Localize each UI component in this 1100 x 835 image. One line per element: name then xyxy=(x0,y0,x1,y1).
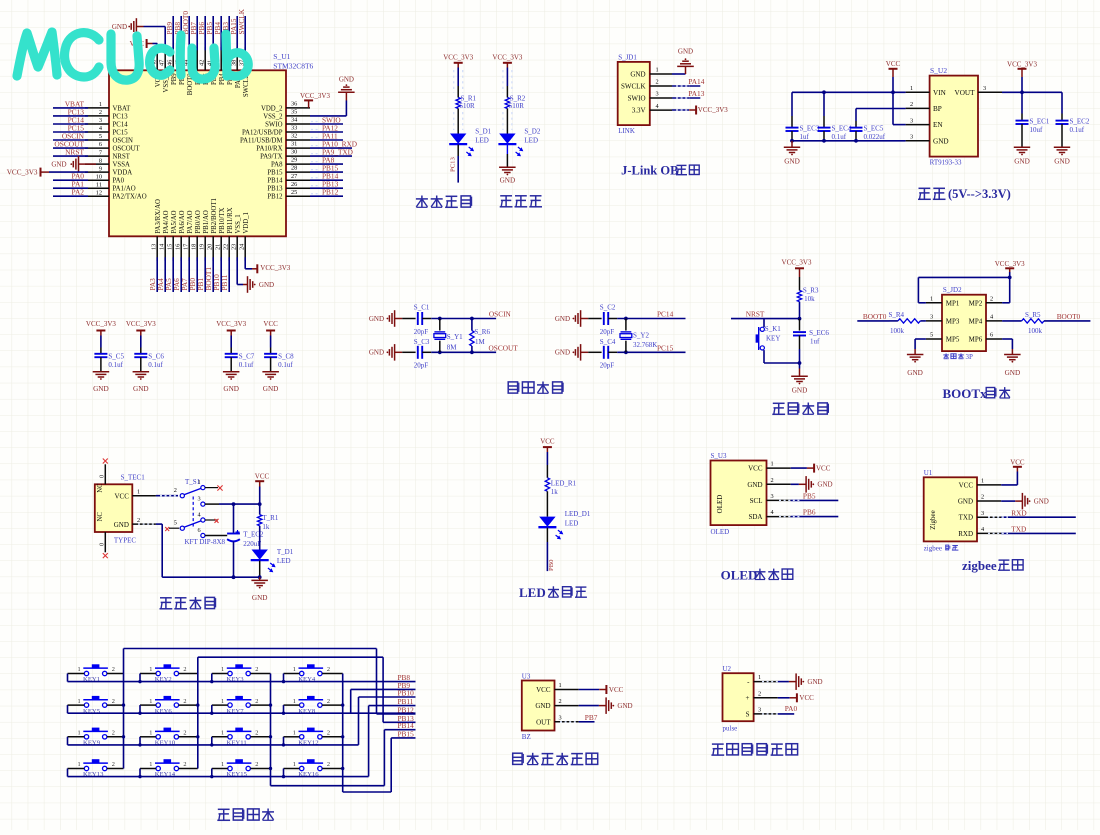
svg-text:32: 32 xyxy=(291,133,297,140)
svg-text:GND: GND xyxy=(1005,369,1021,377)
svg-text:1: 1 xyxy=(221,666,224,673)
svg-text:GND: GND xyxy=(500,176,516,184)
capacitor S_EC1 10uf xyxy=(1014,92,1050,165)
svg-text:PA0: PA0 xyxy=(785,704,798,713)
svg-text:1: 1 xyxy=(771,461,774,468)
gnd sideways xyxy=(369,344,416,361)
svg-text:33: 33 xyxy=(291,125,297,132)
svg-text:OSCOUT: OSCOUT xyxy=(113,146,141,153)
svg-text:LINK: LINK xyxy=(618,127,635,135)
svg-text:VSSA: VSSA xyxy=(113,162,130,169)
svg-text:LED: LED xyxy=(519,585,546,600)
pulse pin 3 S xyxy=(746,707,778,719)
svg-text:VIN: VIN xyxy=(933,89,947,97)
svg-text:OSCIN: OSCIN xyxy=(113,137,133,144)
svg-text:PA2: PA2 xyxy=(72,188,85,197)
svg-text:OLED: OLED xyxy=(716,495,724,514)
JD1 pin4 VCC_3V3 xyxy=(672,106,728,115)
svg-text:BOOT0: BOOT0 xyxy=(1057,312,1081,321)
U2 VOUT pin xyxy=(955,85,1002,97)
svg-text:S_EC6: S_EC6 xyxy=(809,329,829,337)
svg-text:3: 3 xyxy=(656,91,659,98)
svg-text:0.1uf: 0.1uf xyxy=(108,361,123,369)
svg-text:29: 29 xyxy=(291,157,297,164)
svg-text:1: 1 xyxy=(930,295,933,302)
svg-text:47: 47 xyxy=(159,60,166,66)
T_D1 gnd xyxy=(251,561,268,602)
title BOOTx xyxy=(943,386,1011,401)
JD1 pin 1 GND xyxy=(630,67,672,79)
svg-text:VSS_1: VSS_1 xyxy=(235,214,242,233)
svg-text:PB11: PB11 xyxy=(220,274,229,290)
key KEY11 xyxy=(210,728,270,747)
svg-text:S_R4: S_R4 xyxy=(889,311,905,319)
svg-text:7: 7 xyxy=(99,149,102,156)
svg-text:PC14: PC14 xyxy=(657,310,674,319)
wire column rail 4 and route to PB15 xyxy=(341,674,416,793)
wire EN to VIN xyxy=(893,92,906,124)
U1 top pin 42 PB6 xyxy=(197,16,210,85)
key KEY12 xyxy=(282,728,343,747)
svg-text:31: 31 xyxy=(291,141,297,148)
capacitor S_C6 0.1uf xyxy=(126,320,165,393)
svg-text:510R: 510R xyxy=(509,102,525,110)
U1 top pin 37 SWCLK xyxy=(237,8,250,97)
VCC rail top xyxy=(255,473,270,515)
svg-text:RT9193-33: RT9193-33 xyxy=(930,158,962,166)
zigbee pin2 gnd xyxy=(1001,493,1049,510)
svg-text:GND: GND xyxy=(1054,157,1070,165)
svg-text:2: 2 xyxy=(183,666,186,673)
wire NRST node xyxy=(731,302,801,321)
svg-text:GND: GND xyxy=(933,137,949,145)
svg-text:2: 2 xyxy=(183,698,186,705)
title OLED display xyxy=(721,567,793,582)
wire net PB0 xyxy=(547,528,555,571)
svg-text:PB15: PB15 xyxy=(398,729,415,738)
svg-text:PA11/USB/DM: PA11/USB/DM xyxy=(240,137,283,144)
svg-text:GND: GND xyxy=(617,702,632,710)
JD1 pin3 net PA13 xyxy=(672,89,705,98)
U1 top pin 47 VSS_3 xyxy=(159,47,170,93)
svg-text:11: 11 xyxy=(96,181,102,188)
svg-text:VCC: VCC xyxy=(816,464,831,472)
svg-text:20pF: 20pF xyxy=(414,361,429,369)
svg-text:S: S xyxy=(746,710,750,718)
svg-text:26: 26 xyxy=(291,181,297,188)
svg-text:1: 1 xyxy=(198,479,201,486)
svg-text:GND: GND xyxy=(792,386,808,394)
key KEY9 xyxy=(68,728,124,747)
svg-text:PA10/RX: PA10/RX xyxy=(256,146,282,153)
regulator S_U2 body xyxy=(930,66,978,167)
wire xyxy=(506,109,508,134)
IR pin 1 VCC xyxy=(536,682,579,694)
svg-text:S_EC4: S_EC4 xyxy=(832,125,852,133)
U1 pin8 GND symbol xyxy=(51,156,96,173)
svg-text:PA5/AO: PA5/AO xyxy=(171,210,178,233)
svg-text:1: 1 xyxy=(221,698,224,705)
svg-text:J-Link OB: J-Link OB xyxy=(621,164,678,178)
zigbee pin 2 GND xyxy=(958,494,1001,506)
svg-text:NRST: NRST xyxy=(65,148,84,157)
capacitor S_EC3 1uf xyxy=(786,92,820,141)
svg-text:3: 3 xyxy=(981,510,984,517)
title crystal circuit xyxy=(508,382,563,394)
svg-text:VCC_3V3: VCC_3V3 xyxy=(492,53,522,61)
resistor S_R1 510R xyxy=(456,94,477,110)
svg-text:2: 2 xyxy=(112,730,115,737)
capacitor S_C3 20pF xyxy=(414,338,430,370)
svg-text:3: 3 xyxy=(930,314,933,321)
svg-text:VBAT: VBAT xyxy=(113,105,132,112)
svg-text:46: 46 xyxy=(167,60,174,66)
gnd sideways xyxy=(555,344,602,361)
svg-text:2: 2 xyxy=(990,295,993,302)
svg-text:KFT DIP-8X8: KFT DIP-8X8 xyxy=(185,538,226,546)
svg-text:3: 3 xyxy=(198,496,201,503)
svg-text:1: 1 xyxy=(293,730,296,737)
module S_U3 body xyxy=(711,452,767,536)
svg-text:10: 10 xyxy=(96,173,102,180)
svg-text:NC: NC xyxy=(97,483,104,493)
U3 pin4 net PB6 xyxy=(791,508,839,517)
svg-text:13: 13 xyxy=(151,244,158,250)
svg-text:5: 5 xyxy=(174,520,177,527)
JD2 row 1 pins xyxy=(926,295,1002,307)
svg-text:GND: GND xyxy=(784,157,800,165)
svg-text:BOOTx: BOOTx xyxy=(943,386,988,401)
svg-text:PC14: PC14 xyxy=(113,121,129,128)
svg-text:GND: GND xyxy=(1034,497,1049,505)
svg-text:2: 2 xyxy=(99,109,102,116)
svg-text:100k: 100k xyxy=(890,327,905,335)
wire row bus 2 xyxy=(68,705,416,713)
wire net PB9 stair xyxy=(351,681,416,713)
svg-text:2: 2 xyxy=(112,761,115,768)
wire PC14 xyxy=(608,310,685,321)
U1 top pin 38 PA15 xyxy=(229,16,242,88)
svg-text:PB12: PB12 xyxy=(267,194,283,201)
svg-text:GND: GND xyxy=(133,385,149,393)
U1 right pin 33 PA12/USB/DP xyxy=(242,123,343,136)
svg-text:T_R1: T_R1 xyxy=(262,514,278,522)
svg-text:PA12/USB/DP: PA12/USB/DP xyxy=(242,129,283,136)
svg-text:BOOT0: BOOT0 xyxy=(863,312,887,321)
svg-text:VCC_3V3: VCC_3V3 xyxy=(782,259,812,267)
U1 left pin 9 VDDA xyxy=(85,165,132,176)
led T_D1 xyxy=(251,526,294,573)
T_S1 pin5 noconnect xyxy=(165,527,179,531)
svg-text:1: 1 xyxy=(99,101,102,108)
svg-text:GND: GND xyxy=(678,48,693,56)
svg-text:VCC_3V3: VCC_3V3 xyxy=(260,264,290,272)
svg-text:PC15: PC15 xyxy=(657,344,674,353)
svg-text:pulse: pulse xyxy=(723,724,738,732)
svg-text:34: 34 xyxy=(291,117,298,124)
svg-text:EN: EN xyxy=(933,121,943,129)
JD1 pin1 GND symbol xyxy=(672,48,694,75)
U1 left pin 5 OSCIN xyxy=(53,132,133,145)
svg-text:12: 12 xyxy=(96,189,102,196)
svg-text:9: 9 xyxy=(99,165,102,172)
U3 pin1 VCC bar xyxy=(791,464,831,473)
svg-text:2: 2 xyxy=(174,487,177,494)
U3 pin 2 GND xyxy=(747,477,790,489)
svg-text:S_C2: S_C2 xyxy=(600,304,616,312)
capacitor S_C7 0.1uf xyxy=(216,320,255,393)
svg-text:Zigbee: Zigbee xyxy=(929,510,937,529)
IR pin 2 GND xyxy=(535,698,578,710)
svg-text:1: 1 xyxy=(758,674,761,681)
svg-text:SWCLK: SWCLK xyxy=(621,82,646,90)
key KEY15 xyxy=(210,759,270,778)
gnd of EC3 xyxy=(784,141,800,166)
wire column rail 3 and route to PB14 xyxy=(269,674,416,786)
svg-text:GND: GND xyxy=(807,678,822,686)
svg-text:1k: 1k xyxy=(551,488,559,496)
svg-text:2: 2 xyxy=(559,698,562,705)
svg-text:0.1uf: 0.1uf xyxy=(148,361,163,369)
svg-text:S_Y1: S_Y1 xyxy=(447,333,463,341)
svg-text:TXD: TXD xyxy=(959,514,973,522)
svg-text:2: 2 xyxy=(771,477,774,484)
svg-text:S_R2: S_R2 xyxy=(510,94,526,102)
svg-text:S_EC1: S_EC1 xyxy=(1030,118,1050,126)
svg-text:3: 3 xyxy=(99,117,102,124)
svg-text:S_R3: S_R3 xyxy=(803,287,819,295)
U1 right pin 35 VSS_2 xyxy=(263,109,310,121)
title IR module xyxy=(513,753,598,765)
U1 bottom pin 20 PB2/BOOT1 xyxy=(204,198,218,292)
svg-text:VCC: VCC xyxy=(1010,458,1025,466)
svg-text:VCC_3V3: VCC_3V3 xyxy=(86,320,116,328)
MCUclub logo xyxy=(17,32,248,80)
svg-text:10k: 10k xyxy=(804,295,815,303)
svg-text:S_TEC1: S_TEC1 xyxy=(121,474,146,482)
svg-text:BP: BP xyxy=(933,105,942,113)
svg-text:1: 1 xyxy=(293,666,296,673)
led S_D1 xyxy=(449,128,491,157)
TEC1 top pin 0 noconnect xyxy=(98,459,108,485)
U3 pin 1 VCC xyxy=(748,461,791,473)
svg-text:1: 1 xyxy=(78,761,81,768)
svg-text:GND: GND xyxy=(51,160,66,168)
svg-text:0.1uf: 0.1uf xyxy=(239,361,254,369)
svg-text:SDA: SDA xyxy=(748,513,762,521)
svg-text:8: 8 xyxy=(99,157,102,164)
U1 left pin 3 PC14 xyxy=(53,116,128,129)
pulse pin3 net PA0 xyxy=(778,704,798,714)
svg-text:2: 2 xyxy=(327,666,330,673)
svg-text:PC15: PC15 xyxy=(113,129,129,136)
selection marks xyxy=(138,70,1008,722)
svg-text:20: 20 xyxy=(207,244,214,250)
svg-text:zigbee: zigbee xyxy=(924,544,942,552)
svg-text:VSS_2: VSS_2 xyxy=(263,113,283,120)
capacitor S_EC5 0.022uf xyxy=(850,121,886,141)
svg-text:S_D1: S_D1 xyxy=(475,128,491,136)
svg-text:S_C4: S_C4 xyxy=(600,338,616,346)
JD1 pin2 net PA14 xyxy=(672,77,705,86)
svg-text:PB15: PB15 xyxy=(267,170,283,177)
wire VIN net xyxy=(792,90,906,94)
svg-text:1: 1 xyxy=(137,488,140,495)
svg-text:8M: 8M xyxy=(447,344,458,352)
U1 right pin 36 VDD_2 xyxy=(261,101,310,113)
svg-text:VDDA: VDDA xyxy=(113,170,133,177)
svg-text:S_JD1: S_JD1 xyxy=(618,53,637,61)
svg-text:RXD: RXD xyxy=(1011,508,1026,517)
svg-text:PA4/AO: PA4/AO xyxy=(163,210,170,233)
capacitor T_EC2 220uF xyxy=(227,504,264,577)
svg-text:GND: GND xyxy=(252,594,268,602)
svg-text:T_D1: T_D1 xyxy=(277,548,294,556)
resistor S_R4 100k xyxy=(857,311,926,335)
switch T_S1 xyxy=(174,478,226,546)
U1 pin35 GND xyxy=(310,75,355,116)
U3 pin 4 SDA xyxy=(748,509,790,521)
svg-text:MP6: MP6 xyxy=(969,336,983,344)
svg-text:S_D2: S_D2 xyxy=(524,128,540,136)
svg-text:S_C1: S_C1 xyxy=(414,304,430,312)
svg-text:VCC_3V3: VCC_3V3 xyxy=(1007,61,1037,69)
zigbee pin4 net TXD xyxy=(1001,525,1076,534)
svg-text:6: 6 xyxy=(990,332,993,339)
svg-text:MP4: MP4 xyxy=(969,318,983,326)
U1 right pin 32 PA11/USB/DM xyxy=(240,131,343,144)
svg-text:1: 1 xyxy=(78,698,81,705)
connector S_JD1 body xyxy=(618,53,650,135)
U1 right pin 26 PB13 xyxy=(267,180,343,193)
svg-text:S_C7: S_C7 xyxy=(239,352,255,360)
svg-text:SWCLK: SWCLK xyxy=(237,8,246,34)
svg-text:2: 2 xyxy=(112,666,115,673)
svg-text:GND: GND xyxy=(958,498,973,506)
U1 left pin 8 VSSA xyxy=(85,157,130,168)
U2 left pin 2 BP xyxy=(906,101,942,113)
svg-text:PB12: PB12 xyxy=(322,188,339,197)
pulse pin1 gnd xyxy=(778,673,823,690)
svg-text:OLED: OLED xyxy=(721,567,758,582)
svg-text:1: 1 xyxy=(78,666,81,673)
svg-text:22: 22 xyxy=(223,244,230,250)
U1 top pin 48 VCC xyxy=(151,47,162,87)
MCU U1 body xyxy=(109,52,314,236)
svg-text:S_EC2: S_EC2 xyxy=(1070,118,1090,126)
svg-text:PB5: PB5 xyxy=(803,492,816,501)
svg-text:2: 2 xyxy=(255,761,258,768)
gnd sideways xyxy=(555,310,602,327)
svg-text:VCC: VCC xyxy=(255,473,270,481)
svg-text:VCC: VCC xyxy=(748,465,763,473)
U1 bottom pin 22 PB11/RX xyxy=(220,207,234,292)
JD2 row 2 pins xyxy=(926,314,1002,326)
U1 right pin 34 SWIO xyxy=(265,115,343,128)
key KEY6 xyxy=(138,696,198,715)
svg-text:1: 1 xyxy=(910,85,913,92)
svg-text:LED: LED xyxy=(277,557,291,565)
svg-text:S_K1: S_K1 xyxy=(765,325,781,333)
svg-text:PA2/TX/AO: PA2/TX/AO xyxy=(113,194,147,201)
U1 bottom pin 13 PA3/RX/AO xyxy=(148,199,162,292)
svg-text:28: 28 xyxy=(291,165,297,172)
U1 left pin 2 PC13 xyxy=(53,107,128,120)
connector S_TEC1 body xyxy=(95,474,145,545)
crystal S_Y2 32.768K xyxy=(620,319,657,353)
U1 right pin 29 PA8 xyxy=(271,156,343,169)
U1 pin9 VCC_3V3 xyxy=(7,168,88,177)
svg-text:PA1/AO: PA1/AO xyxy=(113,186,136,193)
wire net PB10 stair xyxy=(359,689,416,745)
svg-text:VDD_1: VDD_1 xyxy=(243,212,250,234)
svg-text:18: 18 xyxy=(191,244,198,250)
svg-text:VCC: VCC xyxy=(609,686,624,694)
key KEY2 xyxy=(138,664,198,683)
svg-text:6: 6 xyxy=(99,141,102,148)
U1 left pin 10 PA0 xyxy=(53,172,125,185)
U1 left pin 7 NRST xyxy=(53,148,131,161)
title zigbee module xyxy=(962,558,1023,573)
svg-text:5: 5 xyxy=(99,133,102,140)
wire net PB11 stair xyxy=(369,697,416,776)
svg-text:0: 0 xyxy=(98,475,105,478)
JD1 pin 4 3.3V xyxy=(632,103,672,115)
svg-text:PA3/RX/AO: PA3/RX/AO xyxy=(155,199,162,234)
U1 top VCC bar xyxy=(130,39,158,48)
svg-text:LED: LED xyxy=(475,137,489,145)
svg-text:16: 16 xyxy=(175,244,182,250)
JD2 pin5 gnd xyxy=(907,339,926,377)
svg-text:1: 1 xyxy=(981,478,984,485)
led LED_D1 xyxy=(538,491,590,539)
svg-text:MP2: MP2 xyxy=(969,299,983,307)
zigbee pin 3 TXD xyxy=(959,510,1002,522)
svg-text:24: 24 xyxy=(239,243,246,250)
JD2 small label xyxy=(943,353,964,359)
key KEY3 xyxy=(210,664,270,683)
svg-text:VCC_3V3: VCC_3V3 xyxy=(995,260,1025,268)
svg-text:PA14: PA14 xyxy=(688,77,704,86)
svg-text:MP5: MP5 xyxy=(946,336,960,344)
zigbee pin1 VCC xyxy=(1001,458,1025,485)
svg-text:OSCOUT: OSCOUT xyxy=(489,344,519,353)
svg-text:510R: 510R xyxy=(460,102,476,110)
svg-text:U2: U2 xyxy=(723,665,732,673)
svg-text:3: 3 xyxy=(910,117,913,124)
U1 right pin 31 PA10/RX xyxy=(256,140,357,153)
U1 pin24 VCC_3V3 xyxy=(245,257,291,273)
svg-text:GND: GND xyxy=(93,385,109,393)
svg-text:VCC: VCC xyxy=(799,694,814,702)
svg-text:GND: GND xyxy=(747,481,762,489)
T_S1 pin1 noconnect xyxy=(205,485,223,490)
wire OSCIN xyxy=(422,310,511,321)
resistor S_R6 1M xyxy=(470,319,491,353)
svg-text:21: 21 xyxy=(215,244,222,250)
svg-text:S_EC3: S_EC3 xyxy=(800,125,820,133)
key KEY16 xyxy=(282,759,343,778)
key KEY4 xyxy=(282,664,343,683)
svg-text:S_U2: S_U2 xyxy=(930,66,947,75)
resistor S_R2 510R xyxy=(505,94,526,110)
module zigbee U1 body xyxy=(924,469,977,552)
svg-text:VCC_3V3: VCC_3V3 xyxy=(300,92,330,100)
svg-text:PB1/AO: PB1/AO xyxy=(203,210,210,234)
svg-text:1: 1 xyxy=(559,682,562,689)
U1 pin23 GND xyxy=(237,257,274,293)
svg-text:S_R1: S_R1 xyxy=(461,94,477,102)
